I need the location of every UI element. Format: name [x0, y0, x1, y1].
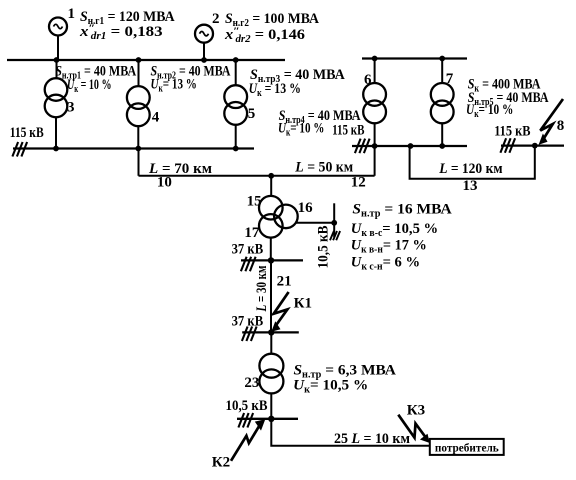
svg-text:Uк с-н= 6 %: Uк с-н= 6 %: [351, 254, 420, 272]
svg-text:15: 15: [247, 194, 262, 210]
svg-text:L = 120 км: L = 120 км: [438, 161, 502, 177]
svg-text:13: 13: [463, 178, 478, 194]
svg-text:3: 3: [67, 100, 75, 116]
svg-text:23: 23: [244, 375, 259, 391]
svg-text:Uк= 10 %: Uк= 10 %: [278, 121, 324, 139]
svg-text:Uк= 13 %: Uк= 13 %: [151, 77, 197, 95]
svg-text:x″dr2 = 0,146: x″dr2 = 0,146: [224, 25, 306, 45]
svg-text:8: 8: [557, 118, 565, 134]
svg-text:12: 12: [351, 175, 366, 191]
svg-text:17: 17: [244, 225, 260, 241]
svg-text:16: 16: [298, 200, 314, 216]
svg-text:37 кВ: 37 кВ: [232, 242, 264, 258]
svg-text:К2: К2: [212, 455, 230, 471]
svg-text:4: 4: [152, 110, 160, 126]
svg-text:10: 10: [157, 175, 172, 191]
svg-text:1: 1: [68, 6, 76, 22]
svg-text:L = 30 км: L = 30 км: [254, 266, 270, 313]
svg-text:10,5 кВ: 10,5 кВ: [226, 398, 268, 414]
svg-text:6: 6: [364, 72, 372, 88]
svg-text:Uк= 10 %: Uк= 10 %: [466, 102, 513, 120]
svg-text:7: 7: [446, 71, 454, 87]
svg-text:2: 2: [212, 11, 220, 27]
svg-text:Uк = 13 %: Uк = 13 %: [249, 81, 301, 99]
svg-text:Uк = 10 %: Uк = 10 %: [67, 77, 112, 95]
svg-text:37 кВ: 37 кВ: [232, 314, 264, 330]
svg-text:потребитель: потребитель: [435, 441, 500, 455]
svg-text:115 кВ: 115 кВ: [494, 124, 530, 140]
svg-text:10,5 кВ: 10,5 кВ: [316, 226, 332, 269]
svg-text:25 L = 10 км: 25 L = 10 км: [334, 431, 410, 447]
svg-text:К1: К1: [294, 295, 312, 311]
svg-text:115 кВ: 115 кВ: [10, 125, 44, 141]
svg-text:L = 50 км: L = 50 км: [294, 160, 353, 176]
svg-text:21: 21: [277, 273, 292, 289]
svg-text:x″dr1 = 0,183: x″dr1 = 0,183: [79, 23, 163, 43]
svg-text:5: 5: [248, 106, 256, 122]
svg-text:115 кВ: 115 кВ: [332, 123, 364, 139]
svg-text:К3: К3: [407, 403, 425, 419]
